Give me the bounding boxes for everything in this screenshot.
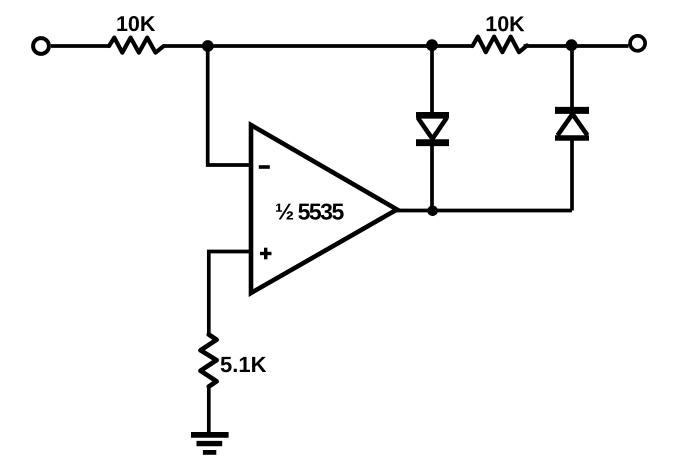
svg-text:10K: 10K bbox=[116, 12, 156, 36]
svg-text:5.1K: 5.1K bbox=[220, 352, 267, 377]
svg-text:½ 5535: ½ 5535 bbox=[275, 199, 344, 225]
svg-text:10K: 10K bbox=[485, 12, 525, 36]
